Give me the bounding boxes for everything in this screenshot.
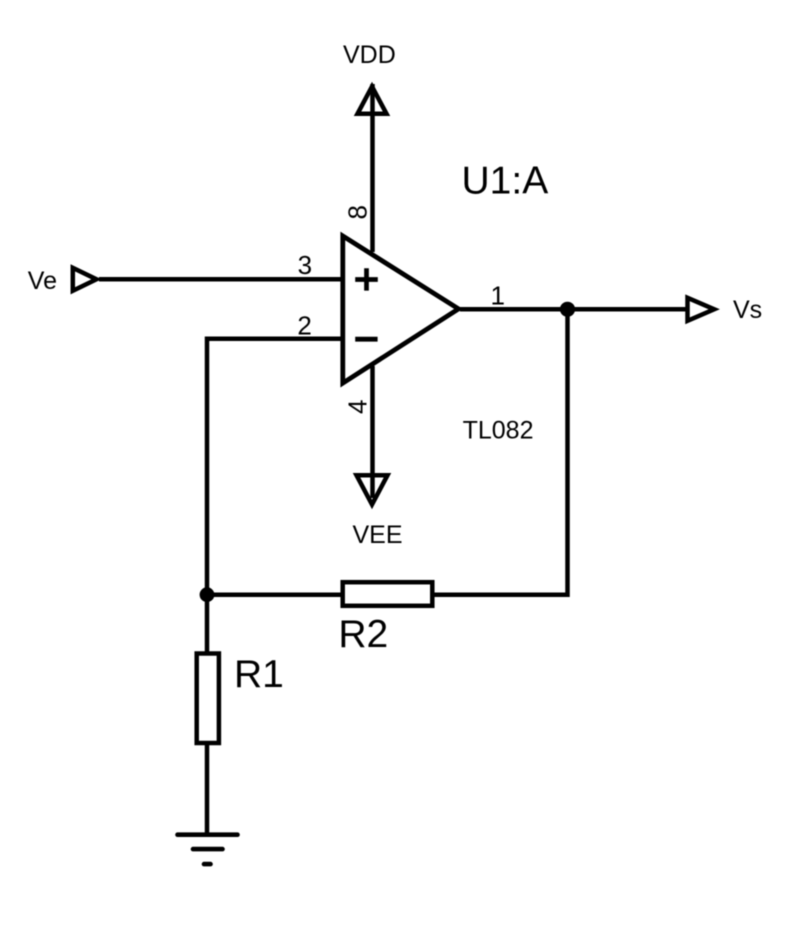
wire output (op-amp pin1 to Vs) — [460, 307, 689, 312]
wire pin 8 (VDD arrow down to op-amp top) — [370, 84, 375, 252]
wire feedback (node right to R2 then up to output node) — [207, 309, 568, 594]
svg-text:R2: R2 — [338, 613, 388, 656]
resistor R2 — [343, 582, 433, 606]
svg-text:3: 3 — [298, 250, 312, 280]
op-amp U1:A body — [343, 236, 459, 383]
wire pin3 (Ve to op-amp +) — [99, 277, 343, 282]
svg-text:TL082: TL082 — [463, 417, 534, 445]
resistor R1 — [197, 654, 219, 744]
terminal Ve — [73, 268, 97, 291]
power VDD arrow — [358, 87, 387, 114]
svg-text:U1:A: U1:A — [462, 160, 549, 203]
junction dot at output node — [560, 302, 575, 317]
svg-text:VEE: VEE — [353, 521, 403, 549]
svg-text:Ve: Ve — [28, 267, 57, 295]
svg-text:VDD: VDD — [343, 41, 396, 69]
svg-text:2: 2 — [297, 311, 311, 341]
svg-text:1: 1 — [491, 281, 505, 311]
junction dot at feedback node — [200, 587, 215, 602]
op-amp plus input symbol — [355, 268, 378, 290]
op-amp minus input symbol — [355, 337, 377, 342]
wire R1 branch (node down through R1 to ground) — [205, 595, 210, 835]
svg-text:4: 4 — [343, 400, 373, 414]
terminal Vs — [688, 298, 715, 321]
svg-text:8: 8 — [343, 205, 373, 219]
svg-text:R1: R1 — [234, 653, 284, 696]
svg-text:Vs: Vs — [733, 296, 762, 324]
power VEE arrow — [357, 475, 388, 504]
wire pin2 (op-amp - left then down to feedback node) — [207, 339, 343, 595]
ground symbol — [178, 832, 238, 837]
wire pin 4 (op-amp bottom down to VEE arrow) — [370, 366, 375, 498]
